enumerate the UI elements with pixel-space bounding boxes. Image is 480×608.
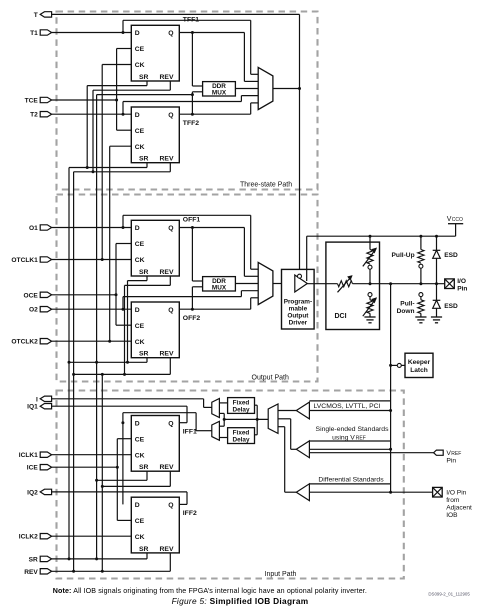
svg-text:Q: Q xyxy=(168,502,173,509)
flip-flop IFF2 xyxy=(131,497,197,553)
svg-text:TCE: TCE xyxy=(25,98,39,105)
DDR MUX (three-state) xyxy=(203,82,236,97)
svg-text:REV: REV xyxy=(160,269,174,276)
port T2 xyxy=(30,112,52,119)
DCI pull-up impedance R xyxy=(363,236,377,284)
svg-text:Q: Q xyxy=(168,420,173,427)
wire O1 to OFF1.D xyxy=(52,226,132,229)
wire standard mux input 2 xyxy=(278,419,296,450)
svg-text:Pin: Pin xyxy=(446,458,456,465)
wire VCCO rail to driver xyxy=(306,236,308,281)
flip-flop OFF2 xyxy=(131,302,200,358)
svg-text:mable: mable xyxy=(289,305,308,312)
wire TFF1.REV branch xyxy=(93,81,170,172)
fixed delay block 2 xyxy=(228,428,255,444)
wire pad net xyxy=(307,282,444,285)
ground (DCI) xyxy=(364,317,375,323)
wire T to three-state control xyxy=(52,14,301,274)
svg-text:I/O: I/O xyxy=(457,278,466,285)
DCI series impedance R xyxy=(338,275,353,292)
wire OFF2.REV branch xyxy=(72,358,170,376)
wire T2 to TFF2.D xyxy=(52,113,132,116)
flip-flop OFF1 xyxy=(131,217,200,276)
svg-text:D: D xyxy=(135,30,140,37)
svg-text:ICE: ICE xyxy=(27,465,39,472)
svg-text:REF: REF xyxy=(356,436,366,442)
svg-text:Single-ended Standards: Single-ended Standards xyxy=(316,426,390,433)
svg-text:Pin: Pin xyxy=(457,286,467,293)
svg-text:D: D xyxy=(135,307,140,314)
svg-text:T1: T1 xyxy=(30,30,38,37)
svg-text:SR: SR xyxy=(139,351,149,358)
svg-text:OFF1: OFF1 xyxy=(183,217,201,224)
port REV xyxy=(24,569,51,576)
svg-text:D: D xyxy=(135,112,140,119)
mux (output select) xyxy=(258,262,273,304)
wire SR to IFF2.SR xyxy=(52,553,147,561)
svg-text:Fixed: Fixed xyxy=(233,400,250,407)
wire O2 direct to mux xyxy=(123,291,258,310)
svg-text:Pull-Up: Pull-Up xyxy=(392,252,415,259)
port O1 xyxy=(29,225,52,232)
svg-text:IFF1: IFF1 xyxy=(183,428,197,435)
svg-text:D: D xyxy=(135,502,140,509)
wire O2 to OFF2.D xyxy=(52,308,132,311)
svg-text:I/O Pin: I/O Pin xyxy=(446,489,466,496)
svg-text:Delay: Delay xyxy=(232,407,249,414)
svg-text:CK: CK xyxy=(135,62,145,69)
three-state control bubble on driver xyxy=(298,274,302,278)
wire TFF2.SR branch xyxy=(69,163,147,559)
port IQ2 xyxy=(27,489,51,496)
svg-text:SR: SR xyxy=(29,556,38,563)
wire ICLK1 to IFF1.CK xyxy=(52,454,132,456)
svg-text:DS099-2_01_112905: DS099-2_01_112905 xyxy=(428,592,470,597)
port I xyxy=(36,396,52,403)
wire OFF1.Q to DDR mux and mux xyxy=(179,226,258,281)
svg-text:Q: Q xyxy=(168,225,173,232)
port OCE xyxy=(24,292,52,299)
svg-text:REV: REV xyxy=(160,351,174,358)
svg-text:Down: Down xyxy=(397,308,415,315)
wire OFF1.REV branch xyxy=(125,276,171,374)
svg-text:CE: CE xyxy=(135,323,145,330)
wire T1 to TFF1.D xyxy=(52,31,132,34)
svg-text:D: D xyxy=(135,225,140,232)
wire SR bus upper xyxy=(97,93,194,559)
wire T1 direct to mux xyxy=(123,20,258,74)
port ICE xyxy=(27,465,52,472)
flip-flop IFF1 xyxy=(131,416,197,472)
figure caption xyxy=(172,596,309,606)
I/O pin pad xyxy=(445,278,468,293)
port ICLK1 xyxy=(19,452,52,459)
port ICLK2 xyxy=(19,534,52,541)
svg-text:IOB: IOB xyxy=(446,512,458,519)
three-state path dashed box xyxy=(57,12,318,190)
programmable output driver U1 xyxy=(282,269,315,329)
svg-text:Driver: Driver xyxy=(289,319,308,326)
wire O1 direct to mux xyxy=(123,215,258,269)
svg-text:Differential Standards: Differential Standards xyxy=(318,477,384,484)
svg-text:SR: SR xyxy=(139,546,149,553)
wire TFF2.REV branch xyxy=(74,163,171,572)
svg-text:Note: All IOB signals origina: Note: All IOB signals originating from t… xyxy=(53,587,367,595)
VREF pin xyxy=(309,450,461,465)
svg-text:TFF1: TFF1 xyxy=(183,16,199,23)
wire mux output to three-state line xyxy=(273,88,300,90)
ground (pull-down) xyxy=(415,317,426,323)
port O2 xyxy=(29,307,52,314)
wire ICE to IFF1.CE and IFF2.CE xyxy=(52,439,132,521)
wire TFF1.SR branch xyxy=(87,81,147,168)
wire buffer3 input from adjacent pad xyxy=(309,491,432,493)
wire OTCLK2 to TFF2.CK xyxy=(110,146,132,341)
svg-text:IQ1: IQ1 xyxy=(27,404,38,411)
ESD diode D1 xyxy=(433,236,458,284)
svg-text:SR: SR xyxy=(139,74,149,81)
DCI pull-down impedance R xyxy=(363,293,377,317)
mux (register path delay select) xyxy=(212,421,220,440)
svg-text:D: D xyxy=(135,420,140,427)
svg-text:O2: O2 xyxy=(29,307,38,314)
wire standard mux input 3 xyxy=(278,427,296,493)
svg-text:Delay: Delay xyxy=(232,437,249,444)
svg-text:CE: CE xyxy=(135,128,145,135)
svg-text:IQ2: IQ2 xyxy=(27,489,38,496)
svg-text:Keeper: Keeper xyxy=(408,359,431,366)
svg-text:ICLK1: ICLK1 xyxy=(19,452,38,459)
svg-text:Fixed: Fixed xyxy=(233,430,250,437)
svg-text:SR: SR xyxy=(139,156,149,163)
svg-text:Adjacent: Adjacent xyxy=(446,504,472,511)
svg-text:LVCMOS, LVTTL, PCI: LVCMOS, LVTTL, PCI xyxy=(314,403,381,410)
svg-text:OTCLK2: OTCLK2 xyxy=(11,339,38,346)
port T xyxy=(34,12,52,19)
pull-up resistor xyxy=(392,236,424,284)
svg-text:CE: CE xyxy=(135,518,145,525)
wire TCE to TFF1.CE and TFF2.CE xyxy=(52,49,132,131)
buffer LVCMOS/LVTTL/PCI xyxy=(296,402,309,419)
svg-text:Q: Q xyxy=(168,112,173,119)
svg-text:SR: SR xyxy=(139,464,149,471)
wire REV to IFF2.REV xyxy=(52,553,171,573)
buffer differential xyxy=(296,484,309,501)
svg-text:REV: REV xyxy=(24,569,38,576)
wire buffered input main line xyxy=(224,418,268,421)
svg-text:Output: Output xyxy=(287,312,309,319)
mux (input standard select) xyxy=(268,404,278,433)
svg-text:IFF2: IFF2 xyxy=(183,510,197,517)
svg-text:Three-state Path: Three-state Path xyxy=(240,181,292,188)
svg-text:CK: CK xyxy=(135,144,145,151)
svg-text:I: I xyxy=(36,396,38,403)
port OTCLK1 xyxy=(11,257,51,264)
wire TFF1.Q to DDR mux and mux xyxy=(179,31,258,86)
mux (I path delay select) xyxy=(212,399,220,418)
wire ICLK2 to IFF2.CK xyxy=(52,535,132,537)
fixed delay block 1 xyxy=(228,398,255,414)
svg-text:CK: CK xyxy=(135,339,145,346)
svg-text:REV: REV xyxy=(160,74,174,81)
svg-text:REV: REV xyxy=(160,156,174,163)
svg-text:Figure 5: Simplified IOB Diag: Figure 5: Simplified IOB Diagram xyxy=(172,596,309,606)
wire IQ2 from IFF2.Q xyxy=(52,492,187,505)
svg-text:Pull-: Pull- xyxy=(400,301,414,308)
input path dashed box xyxy=(57,391,404,579)
svg-text:DCI: DCI xyxy=(335,313,347,320)
wire undelayed to muxes xyxy=(219,413,225,426)
svg-text:Program-: Program- xyxy=(284,298,312,305)
I/O pin from adjacent IOB pad xyxy=(433,487,472,518)
svg-text:MUX: MUX xyxy=(212,90,227,97)
svg-text:T: T xyxy=(34,12,38,19)
port SR xyxy=(29,556,52,563)
svg-text:OTCLK1: OTCLK1 xyxy=(11,257,38,264)
wire OFF1.SR branch xyxy=(128,276,148,362)
svg-text:REV: REV xyxy=(160,546,174,553)
svg-text:MUX: MUX xyxy=(212,285,227,292)
wire mux output to driver xyxy=(273,283,282,285)
DDR MUX (output) xyxy=(203,277,236,292)
wire buffer2 input xyxy=(309,448,390,450)
wire OCE to OFF1.CE and OFF2.CE xyxy=(52,244,132,326)
svg-text:TFF2: TFF2 xyxy=(183,120,199,127)
flip-flop TFF2 xyxy=(131,107,199,163)
wire OFF2.Q to DDR mux and mux xyxy=(179,287,258,311)
wire delay2 output to mux xyxy=(219,437,227,439)
svg-text:OFF2: OFF2 xyxy=(183,315,201,322)
wire delay block feeds xyxy=(255,405,258,435)
wire OTCLK1 to OFF1.CK xyxy=(52,258,132,261)
keeper latch xyxy=(391,353,433,377)
svg-text:T2: T2 xyxy=(30,112,38,119)
svg-text:Input Path: Input Path xyxy=(265,571,297,578)
svg-text:ESD: ESD xyxy=(444,252,458,259)
note text xyxy=(53,587,367,595)
drawing id xyxy=(428,592,470,597)
wire I from mux xyxy=(52,399,212,408)
svg-text:CE: CE xyxy=(135,436,145,443)
wire standard mux input 1 xyxy=(278,410,296,412)
svg-text:Output Path: Output Path xyxy=(252,374,289,381)
label Single-ended Standards using VREF xyxy=(309,426,390,442)
flip-flop TFF1 xyxy=(131,16,199,81)
svg-text:CE: CE xyxy=(135,46,145,53)
svg-text:Latch: Latch xyxy=(410,367,428,374)
svg-text:using V: using V xyxy=(332,435,355,442)
svg-text:CE: CE xyxy=(135,241,145,248)
wire TFF2.Q to DDR mux and mux xyxy=(179,92,258,116)
port IQ1 xyxy=(27,404,51,411)
svg-text:O1: O1 xyxy=(29,225,38,232)
svg-text:Q: Q xyxy=(168,307,173,314)
svg-text:REV: REV xyxy=(160,464,174,471)
port TCE xyxy=(25,97,52,104)
svg-text:ICLK2: ICLK2 xyxy=(19,534,38,541)
svg-text:CCO: CCO xyxy=(452,217,463,223)
wire DDR mux output to mux xyxy=(235,283,258,285)
svg-text:SR: SR xyxy=(139,269,149,276)
wire OFF2.SR branch xyxy=(68,358,148,364)
wire delayed data to IFF.D xyxy=(121,413,211,505)
wire delay1 output to mux xyxy=(219,402,227,404)
wire DDR mux output to mux xyxy=(235,88,258,90)
svg-text:Q: Q xyxy=(168,30,173,37)
wire pad to input buffers xyxy=(389,284,392,494)
label LVCMOS, LVTTL, PCI xyxy=(309,401,390,410)
ESD diode D2 xyxy=(433,284,458,317)
power VCCO xyxy=(447,216,463,236)
svg-text:ESD: ESD xyxy=(444,303,458,310)
label Differential Standards xyxy=(309,477,390,484)
port T1 xyxy=(30,30,52,37)
svg-text:CK: CK xyxy=(135,452,145,459)
wire VCCO rail xyxy=(307,235,456,238)
buffer single-ended VREF xyxy=(296,441,309,458)
wire buffer1 input xyxy=(309,410,390,412)
DCI block xyxy=(326,242,380,329)
pull-down resistor xyxy=(397,293,424,317)
svg-text:CK: CK xyxy=(135,257,145,264)
svg-text:OCE: OCE xyxy=(24,292,39,299)
output path dashed box xyxy=(57,195,318,382)
svg-text:from: from xyxy=(446,497,460,504)
wire IFF1.REV branch xyxy=(101,374,171,571)
svg-text:CK: CK xyxy=(135,534,145,541)
wire T2 direct to mux xyxy=(123,96,258,115)
svg-text:REF: REF xyxy=(451,451,461,457)
wire IFF1.SR branch xyxy=(95,471,147,482)
ground (ESD) xyxy=(431,317,442,323)
wire OTCLK2 to OFF2.CK xyxy=(52,340,132,343)
wire OTCLK1 to TFF1.CK xyxy=(102,65,131,260)
mux (three-state select) xyxy=(258,67,273,109)
wire IQ1 from IFF1.Q xyxy=(52,406,187,423)
port OTCLK2 xyxy=(11,339,51,346)
